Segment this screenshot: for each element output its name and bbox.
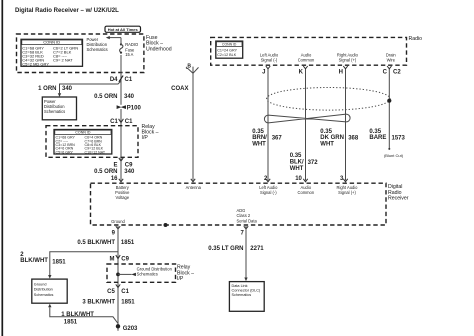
ground distribution schematics box: [32, 279, 67, 303]
svg-text:BLK/: BLK/: [290, 160, 304, 166]
svg-text:WHT: WHT: [290, 166, 304, 172]
receiver internal labels: [111, 185, 358, 224]
svg-text:I/P: I/P: [177, 276, 184, 282]
splice dot on receiver lower edge: [164, 223, 168, 227]
relay block IP lower label: [177, 265, 194, 282]
pin C / C2: [383, 66, 402, 75]
svg-text:Signal (+): Signal (+): [339, 58, 357, 63]
wire label 0.5 ORN 340: [94, 94, 135, 100]
svg-text:1573: 1573: [392, 136, 406, 142]
power distribution schematics note (fuse block): [87, 37, 108, 52]
svg-text:CONN ID: CONN ID: [43, 40, 60, 45]
svg-text:1851: 1851: [121, 240, 135, 246]
pin 16: [111, 158, 123, 182]
svg-text:Signal (+): Signal (+): [338, 190, 356, 195]
svg-text:1851: 1851: [64, 319, 78, 325]
ground G203: [116, 324, 138, 332]
power distribution schematics box: [42, 97, 76, 120]
ground distribution arrow note: [116, 267, 172, 277]
relay block IP box: [46, 126, 138, 158]
svg-text:0.5 ORN: 0.5 ORN: [94, 94, 117, 100]
svg-text:K: K: [299, 69, 304, 75]
svg-text:P100: P100: [127, 106, 142, 112]
wire fuse to P100: [120, 55, 122, 105]
svg-text:1851: 1851: [52, 259, 66, 265]
svg-text:Voltage: Voltage: [115, 195, 129, 200]
svg-text:C5=6 GRY: C5=6 GRY: [56, 150, 74, 154]
svg-text:Underhood: Underhood: [146, 46, 172, 52]
fuse RADIO 15A: [120, 38, 139, 58]
inline connector P100: [117, 105, 142, 112]
svg-text:Digital Radio Receiver – w/ U2: Digital Radio Receiver – w/ U2K/U2L: [15, 8, 119, 14]
svg-text:RADIO: RADIO: [125, 42, 138, 47]
fuse block label: [146, 35, 172, 52]
svg-text:Ground: Ground: [34, 283, 47, 287]
conn id table (relay block): [54, 130, 112, 155]
svg-text:C1: C1: [125, 119, 133, 125]
svg-text:Ground: Ground: [111, 219, 125, 224]
svg-text:1851: 1851: [121, 300, 135, 306]
relay block IP label: [142, 124, 159, 141]
svg-text:C5=2 MD GRY: C5=2 MD GRY: [22, 61, 49, 66]
svg-text:WHT: WHT: [252, 141, 266, 147]
svg-text:10: 10: [295, 176, 302, 182]
svg-text:0.35: 0.35: [369, 129, 381, 135]
pin 7: [240, 226, 248, 236]
svg-text:1 ORN: 1 ORN: [38, 86, 56, 92]
svg-text:Schematics: Schematics: [232, 293, 252, 297]
arrow to power distribution: [106, 36, 121, 39]
fuse block underhood box: [17, 34, 144, 73]
svg-text:Wire: Wire: [387, 58, 396, 63]
coax wire: [192, 73, 194, 181]
svg-text:CONN ID: CONN ID: [222, 42, 237, 46]
serial data wire: [244, 226, 247, 281]
wire P100 to relay block: [120, 109, 122, 162]
svg-text:C5: C5: [107, 289, 115, 295]
svg-text:372: 372: [308, 160, 319, 166]
svg-text:C1=24 GRY: C1=24 GRY: [217, 48, 237, 52]
svg-text:H: H: [339, 69, 343, 75]
connector E/C9: [113, 158, 133, 169]
wire J to pin 2: [267, 69, 269, 180]
wire K to pin 10: [305, 69, 307, 180]
connector C1/C1: [110, 119, 133, 125]
svg-text:Schematics: Schematics: [44, 109, 65, 114]
wire branch 2 BLK/WHT 1851: [20, 252, 118, 279]
svg-text:340: 340: [62, 86, 73, 92]
svg-text:Schematics: Schematics: [137, 272, 158, 277]
svg-text:G203: G203: [123, 326, 138, 332]
digital radio receiver box: [91, 183, 387, 225]
svg-text:D4: D4: [110, 77, 118, 83]
svg-text:367: 367: [272, 135, 283, 141]
svg-text:1 BLK/WHT: 1 BLK/WHT: [61, 312, 94, 318]
svg-text:M: M: [110, 256, 115, 262]
pin 10: [295, 176, 307, 182]
wire label 0.35 BARE 1573: [369, 129, 405, 142]
connector M/C9: [110, 255, 130, 262]
svg-text:0.5 BLK/WHT: 0.5 BLK/WHT: [77, 240, 115, 246]
svg-text:C1: C1: [125, 77, 133, 83]
conn id table (fuse block): [21, 39, 83, 66]
svg-text:340: 340: [124, 169, 135, 175]
svg-text:C9: C9: [125, 163, 133, 169]
wire label 0.35 LT GRN 2271: [208, 246, 264, 252]
svg-text:Receiver: Receiver: [388, 196, 409, 202]
antenna connector B: [186, 63, 198, 73]
wire label 3 BLK/WHT 1851: [82, 300, 135, 306]
svg-text:0.35: 0.35: [290, 153, 302, 159]
twisted pair symbol: [264, 114, 350, 123]
svg-text:15 A: 15 A: [125, 52, 133, 57]
svg-text:(Blunt Cut): (Blunt Cut): [384, 153, 404, 158]
radio box: [211, 37, 407, 65]
svg-text:Hot at All Times: Hot at All Times: [108, 27, 139, 32]
svg-text:Common: Common: [297, 190, 314, 195]
svg-text:340: 340: [124, 94, 135, 100]
svg-text:C9: C9: [121, 256, 129, 262]
pin J: [262, 66, 270, 75]
wire label 0.5 ORN 340 (lower): [94, 169, 135, 175]
svg-text:C1: C1: [121, 289, 129, 295]
wire branch 1 ORN 340 to power distribution: [38, 81, 121, 97]
svg-text:Connector (DLC): Connector (DLC): [232, 289, 261, 293]
connector C5/C1: [107, 284, 130, 294]
svg-text:Radio: Radio: [409, 36, 423, 42]
hot at all times label: [105, 26, 141, 32]
svg-text:WHT: WHT: [320, 141, 334, 147]
svg-text:C2=12 BLK: C2=12 BLK: [217, 53, 237, 57]
pin K: [299, 66, 308, 75]
svg-text:BARE: BARE: [369, 135, 386, 141]
svg-text:C9= 2 NAT: C9= 2 NAT: [53, 57, 73, 62]
antenna tick at receiver: [191, 179, 195, 182]
svg-text:Antenna: Antenna: [186, 185, 202, 190]
drain wire: [388, 69, 390, 150]
svg-text:Class 2: Class 2: [237, 213, 251, 218]
svg-text:Schematics: Schematics: [87, 47, 108, 52]
svg-text:2271: 2271: [250, 246, 264, 252]
svg-text:E: E: [113, 163, 117, 169]
svg-text:C: C: [383, 69, 388, 75]
wire label 0.35 BLK/WHT 372: [290, 153, 319, 172]
page edge line: [1, 0, 3, 336]
svg-text:Signal (-): Signal (-): [261, 58, 278, 63]
svg-text:Schematics: Schematics: [34, 293, 54, 297]
svg-text:3 BLK/WHT: 3 BLK/WHT: [82, 300, 115, 306]
svg-text:0.5 ORN: 0.5 ORN: [94, 169, 117, 175]
pin 3: [340, 176, 348, 182]
junction drain wire to shield: [387, 99, 391, 103]
radio pin labels: [260, 53, 397, 63]
svg-text:I/P: I/P: [142, 135, 149, 141]
digital radio receiver label: [388, 184, 409, 201]
wire label 0.5 BLK/WHT 1851: [77, 240, 135, 246]
svg-text:0.35: 0.35: [252, 129, 264, 135]
svg-text:BLK/WHT: BLK/WHT: [20, 258, 48, 264]
svg-text:Serial Data: Serial Data: [237, 218, 258, 223]
svg-text:C2: C2: [393, 69, 401, 75]
data link connector box: [229, 282, 264, 312]
svg-text:CONN ID: CONN ID: [75, 131, 91, 135]
svg-text:C1: C1: [110, 119, 118, 125]
pin 2: [264, 176, 270, 182]
svg-text:COAX: COAX: [171, 86, 188, 92]
svg-text:BRN/: BRN/: [252, 135, 267, 141]
wire branch 1 BLK/WHT 1851: [48, 304, 118, 326]
conn id table (radio): [216, 41, 243, 58]
svg-text:0.35 LT GRN: 0.35 LT GRN: [208, 246, 243, 252]
svg-text:Signal (-): Signal (-): [260, 190, 277, 195]
connector D4/C1: [110, 76, 133, 83]
svg-text:368: 368: [348, 136, 359, 142]
wire label 0.35 BRN/WHT 367: [252, 129, 282, 148]
svg-text:DK GRN: DK GRN: [320, 135, 344, 141]
pin H: [339, 66, 348, 75]
relay block IP lower box: [107, 264, 176, 282]
svg-text:0.35: 0.35: [320, 129, 332, 135]
svg-text:16: 16: [111, 176, 118, 182]
wire H to pin 3: [345, 69, 347, 180]
ground wire 0.5 BLK/WHT: [117, 226, 119, 326]
wire label 0.35 DK GRN WHT 368: [320, 129, 359, 148]
svg-text:Data Link: Data Link: [232, 284, 248, 288]
svg-text:Common: Common: [298, 58, 315, 63]
svg-text:Distribution: Distribution: [34, 288, 53, 292]
svg-text:J: J: [262, 69, 265, 75]
pin 9: [112, 226, 121, 236]
svg-text:C10=12 NAT: C10=12 NAT: [85, 150, 106, 154]
twisted cable ellipse: [267, 88, 391, 111]
